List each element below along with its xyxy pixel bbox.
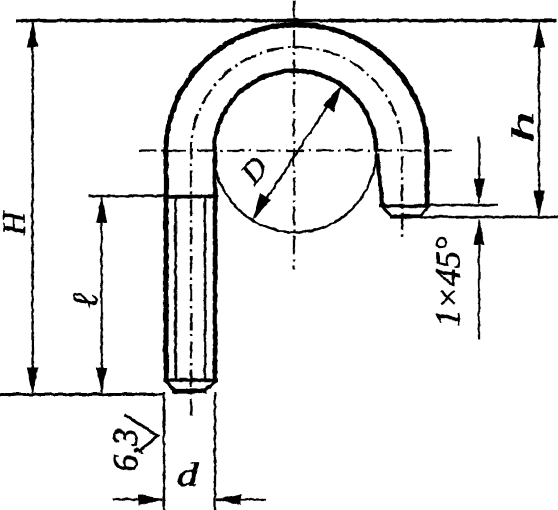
- svg-text:ℓ: ℓ: [64, 293, 104, 308]
- svg-text:6,3: 6,3: [106, 428, 145, 472]
- svg-text:d: d: [176, 457, 198, 493]
- svg-text:h: h: [504, 111, 539, 142]
- svg-text:H: H: [0, 210, 31, 236]
- svg-text:1×45°: 1×45°: [428, 236, 467, 326]
